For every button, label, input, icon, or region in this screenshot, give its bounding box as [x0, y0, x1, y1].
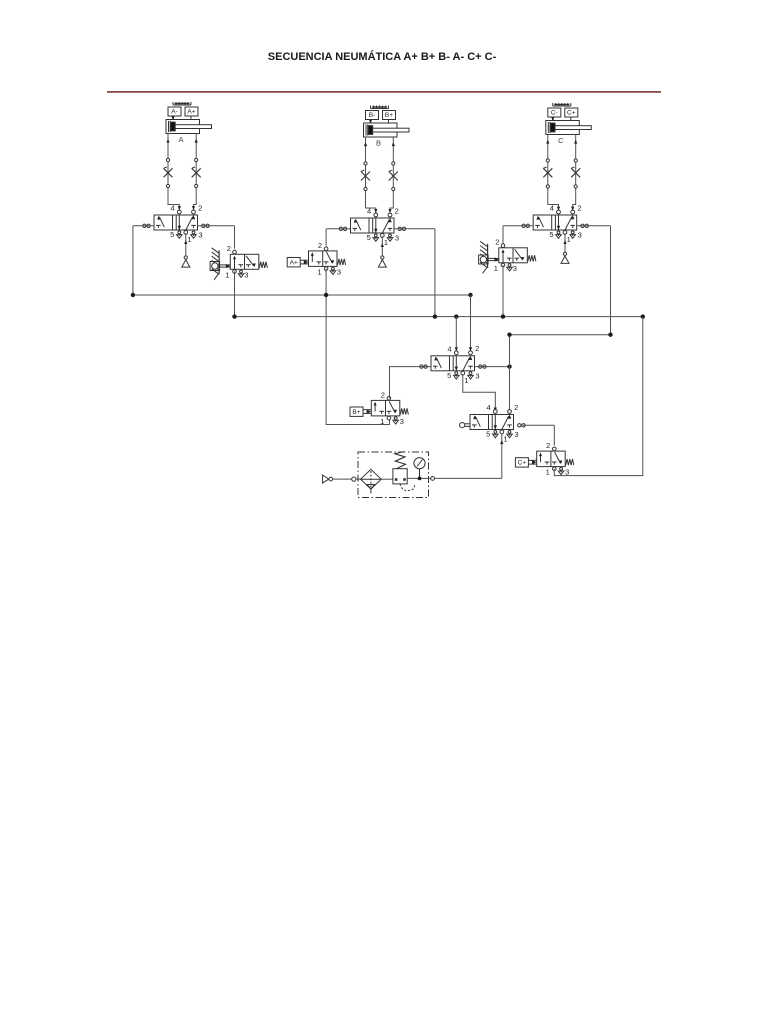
wire signal valve A+ port 1 through bus 1 down to valve B+ port 1 [326, 269, 389, 425]
junction bus1 / signal valve A+ supply [324, 293, 328, 297]
5/2-way valve B (ports 4,2,5,1,3) [339, 206, 406, 247]
flow control valve B right [389, 170, 398, 180]
cylinder A [166, 102, 212, 144]
svg-text:A-: A- [171, 109, 178, 116]
svg-text:1: 1 [187, 235, 191, 244]
wire B cyl left port to valve B port 4 [364, 137, 378, 213]
wire bus2 to valve V1 port 4 [455, 317, 458, 352]
svg-text:1: 1 [464, 376, 468, 385]
3/2 signal valve C+ [515, 441, 573, 477]
svg-text:2: 2 [395, 206, 399, 215]
svg-text:3: 3 [513, 264, 517, 273]
flow control valve B left [361, 170, 370, 180]
wire bus1 to valve V1 port 2 [469, 295, 472, 351]
5/2-way valve C (ports 4,2,5,1,3) [522, 203, 589, 244]
svg-text:1: 1 [225, 270, 229, 279]
junction bus2 / valve B right pilot [433, 314, 437, 318]
pressure gauge [414, 458, 425, 481]
svg-text:1: 1 [567, 235, 571, 244]
svg-text:3: 3 [514, 430, 518, 439]
wire valve B right pilot to bus 2 [394, 229, 435, 317]
air supply for valve A [182, 233, 190, 267]
junction bus1 right end / valve V1 port 2 [468, 293, 472, 297]
wire B cyl right port to valve B port 2 [388, 137, 395, 213]
svg-text:2: 2 [381, 390, 385, 399]
wire valve C left pilot to roller valve C port 2 [503, 226, 533, 246]
3/2 signal valve B+ [350, 390, 408, 426]
compressed air source [323, 475, 362, 483]
flow control valve A right [192, 167, 201, 177]
wire roller valve C port 1 to bus 2 [502, 265, 504, 317]
svg-text:C+: C+ [518, 460, 527, 467]
wire roller valve A port 1 to bus 2 [234, 272, 236, 317]
svg-text:1: 1 [384, 238, 388, 247]
svg-text:2: 2 [577, 203, 581, 212]
wire valve V2 port 1 to air service unit outlet [433, 433, 503, 478]
svg-text:A: A [178, 135, 183, 144]
cylinder B [364, 106, 410, 148]
junction corner at x508 [507, 333, 511, 337]
wire valve V2 port 2 up to junction [509, 367, 511, 412]
air supply for valve C [561, 233, 569, 263]
svg-text:4: 4 [487, 403, 491, 412]
svg-text:C: C [558, 136, 564, 145]
svg-text:A+: A+ [187, 109, 195, 116]
svg-text:SECUENCIA NEUMÁTICA A+ B+ B- A: SECUENCIA NEUMÁTICA A+ B+ B- A- C+ C- [268, 50, 497, 63]
wire valve V1 right pilot junction [475, 366, 510, 368]
svg-text:A+: A+ [290, 260, 298, 267]
3/2 signal valve A+ [287, 241, 345, 277]
svg-text:1: 1 [317, 267, 321, 276]
flow control valve C right [571, 167, 580, 177]
wire valve A left pilot to bus 1 [133, 226, 154, 295]
bus line 1 (group I supply) [133, 294, 470, 296]
5/2-way cascade valve V1 [420, 344, 487, 385]
wire regulator to gauge junction [407, 477, 433, 479]
wire junction to C-valve-pilot corner [510, 335, 611, 367]
junction V1 right pilot / valve V2 port 2 [507, 364, 511, 368]
wire C cyl left port to valve C port 4 [546, 135, 560, 211]
svg-text:2: 2 [495, 237, 499, 246]
svg-text:B+: B+ [385, 112, 393, 119]
svg-text:2: 2 [198, 203, 202, 212]
wire valve C right pilot to junction above valve V1 [577, 226, 611, 335]
wire valve B left pilot to signal valve A+ port 2 [326, 229, 350, 246]
svg-text:4: 4 [171, 204, 175, 213]
5/2-way valve A (ports 4,2,5,1,3) [143, 203, 210, 244]
junction bus2 / valve V1 port 4 [454, 314, 458, 318]
junction bus2 left end [232, 314, 236, 318]
svg-text:2: 2 [514, 403, 518, 412]
svg-text:2: 2 [318, 241, 322, 250]
svg-text:5: 5 [447, 371, 451, 380]
svg-text:5: 5 [367, 233, 371, 242]
svg-text:4: 4 [448, 345, 452, 354]
wire A cyl right port to valve A port 2 [192, 134, 198, 211]
svg-text:2: 2 [475, 344, 479, 353]
flow control valve A left [164, 167, 173, 177]
svg-text:5: 5 [486, 430, 490, 439]
svg-text:1: 1 [380, 417, 384, 426]
svg-text:5: 5 [170, 230, 174, 239]
wire C cyl right port to valve C port 2 [571, 135, 577, 211]
svg-text:3: 3 [337, 267, 341, 276]
wire valve A right pilot to roller valve A port 2 [198, 226, 235, 249]
svg-text:B: B [376, 139, 381, 148]
wire filter to regulator [381, 478, 393, 480]
wire signal valve C+ port 1 to bus 2 (via right riser) [554, 317, 643, 476]
wire valve V2 right pilot to signal valve C+ port 2 [523, 425, 554, 445]
svg-text:4: 4 [550, 204, 554, 213]
junction corner at x610 [608, 333, 612, 337]
svg-text:1: 1 [546, 468, 550, 477]
svg-text:1: 1 [494, 264, 498, 273]
svg-text:C-: C- [551, 110, 558, 117]
svg-text:3: 3 [475, 371, 479, 380]
svg-text:4: 4 [367, 207, 371, 216]
svg-text:B-: B- [369, 112, 376, 119]
air service unit enclosure (dash-dot) [358, 452, 429, 498]
svg-text:B+: B+ [352, 409, 360, 416]
service unit outlet connector [431, 477, 435, 481]
wire valve V1 port 1 to valve V2 port 4 [463, 374, 497, 412]
air supply for valve B [378, 236, 386, 267]
junction bus1 left end [131, 293, 135, 297]
flow control valve C left [543, 167, 552, 177]
svg-text:3: 3 [578, 231, 582, 240]
junction bus2 right end [641, 314, 645, 318]
bus line 2 (group II supply) [235, 316, 643, 318]
svg-text:1: 1 [503, 435, 507, 444]
svg-text:3: 3 [395, 234, 399, 243]
horizontal rule [107, 91, 661, 93]
svg-text:5: 5 [549, 230, 553, 239]
svg-text:3: 3 [400, 417, 404, 426]
svg-text:3: 3 [244, 270, 248, 279]
wire A cyl left port to valve A port 4 [166, 134, 181, 211]
filter with water separator [361, 469, 382, 493]
svg-text:2: 2 [227, 244, 231, 253]
pressure regulator with relief [393, 452, 415, 491]
svg-text:C+: C+ [567, 110, 576, 117]
5/2-way cascade valve V2 with manual plunger [460, 403, 526, 444]
wire signal valve B+ port 2 to valve V1 left pilot [390, 367, 432, 399]
3/2 roller limit valve (cylinder A) [210, 244, 267, 280]
junction bus2 / roller valve C supply [501, 314, 505, 318]
3/2 roller limit valve (cylinder C) [479, 237, 536, 273]
svg-text:2: 2 [546, 441, 550, 450]
svg-text:3: 3 [198, 231, 202, 240]
cylinder C [546, 103, 592, 145]
